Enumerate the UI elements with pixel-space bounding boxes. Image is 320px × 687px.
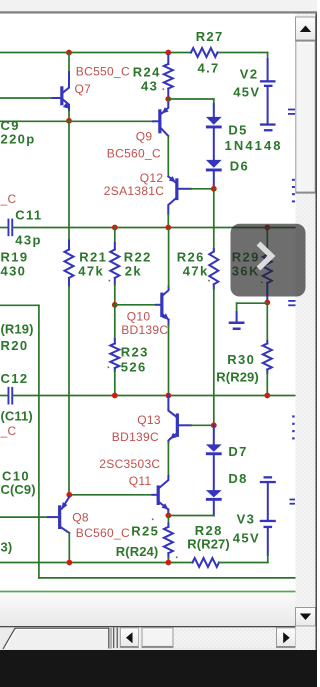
ground symbol — [236, 303, 238, 312]
transistor Q10 BD139C npn — [115, 304, 156, 306]
svg-text:D5: D5 — [228, 123, 247, 138]
clipped symbol mark = at y499 — [290, 499, 296, 501]
scrollbar corner checker — [296, 627, 316, 650]
svg-text:BC560_C: BC560_C — [107, 147, 161, 161]
wire y227.5 mid rail — [13, 227, 295, 229]
capacitor C11 43p — [8, 219, 10, 237]
svg-text:45V: 45V — [233, 531, 260, 546]
pin speck marks — [108, 88, 263, 558]
wire y395.5 mid-low rail — [13, 395, 295, 397]
svg-text:R23: R23 — [121, 345, 149, 360]
svg-text:430: 430 — [1, 264, 27, 279]
wire x69 column below R21 — [68, 286, 70, 495]
resistor R27 (4.7) horizontal at top — [191, 48, 218, 57]
toolbar strip top — [0, 0, 317, 12]
svg-text:V3: V3 — [237, 512, 256, 527]
svg-text:R(R27): R(R27) — [187, 537, 230, 552]
clipped symbol mark = at y109 — [288, 109, 295, 111]
wire x213.8 column below R26 to Q13 base node — [213, 289, 215, 426]
svg-text:R30: R30 — [227, 352, 255, 367]
svg-text:_C: _C — [0, 424, 16, 438]
node junction dot Q11 base node — [66, 492, 72, 498]
diode D6 — [206, 160, 222, 168]
wire V2 top lead corner — [267, 53, 269, 60]
node junction dot R25 bottom — [166, 560, 172, 566]
svg-text:R21: R21 — [79, 250, 107, 265]
svg-text:C11: C11 — [15, 208, 42, 223]
node junction dot top rail / Q7 collector — [66, 50, 72, 56]
vertical scrollbar thumb — [296, 41, 315, 193]
node junction dot R22 bottom / Q10 base — [112, 302, 118, 308]
svg-text:47k: 47k — [78, 264, 104, 279]
vertical scrollbar track — [296, 14, 316, 627]
svg-text:(R19): (R19) — [1, 322, 34, 337]
svg-text:R25: R25 — [131, 524, 159, 539]
svg-text:D7: D7 — [228, 444, 247, 459]
node junction dot Q11 emitter / R25 top — [166, 513, 172, 519]
black footer — [0, 650, 317, 687]
svg-text:BD139C: BD139C — [112, 430, 159, 444]
off-page area below schematic page — [0, 593, 296, 627]
node junction dot top rail / R24 top — [165, 50, 171, 56]
svg-text:C(C9): C(C9) — [1, 482, 36, 497]
svg-text:526: 526 — [121, 360, 147, 375]
svg-text:Q7: Q7 — [75, 82, 92, 96]
battery V2 45V upper cell — [267, 59, 269, 80]
svg-text:Q11: Q11 — [129, 474, 152, 488]
vertical scrollbar down button — [296, 608, 316, 627]
svg-text:2k: 2k — [125, 264, 142, 279]
svg-text:R19: R19 — [1, 250, 29, 265]
resistor R21 (47k) vertical — [68, 241, 70, 250]
vertical scrollbar up button — [296, 17, 316, 41]
svg-text:BC550_C: BC550_C — [76, 65, 130, 79]
svg-text:47k: 47k — [183, 264, 209, 279]
transistor Q9 BC560_C pnp — [167, 99, 169, 103]
horizontal scrollbar thumb — [142, 628, 173, 648]
clipped symbol dashes x293 y179-203 — [292, 179, 295, 181]
node junction dot R24 bottom — [165, 96, 171, 102]
transistor Q12 2SA1381C pnp — [168, 176, 175, 182]
transistor Q13 BD139C npn — [167, 396, 169, 410]
svg-text:(C11): (C11) — [1, 409, 33, 424]
svg-text:Q9: Q9 — [136, 130, 153, 144]
horizontal scrollbar track — [139, 628, 277, 648]
svg-text:2SA1381C: 2SA1381C — [104, 184, 164, 198]
node junction dot R29 bottom / ground branch — [264, 300, 270, 306]
resistor R24 (43) vertical — [167, 55, 169, 64]
wire y121 Q7 emitter to Q9 base — [0, 120, 153, 122]
resistor R28 horizontal — [193, 558, 220, 567]
wire x69 column Q7 emitter down to Q11 base node — [68, 121, 70, 241]
svg-text:R(R24): R(R24) — [116, 544, 159, 559]
node junction dot W5/Q12 collector — [165, 225, 171, 231]
wire y515.5 D8 anode to Q11 emitter node — [168, 515, 213, 517]
node junction dot R23 bottom — [112, 393, 118, 399]
svg-text:Q10: Q10 — [127, 310, 151, 324]
node junction dot Q13 base / D7 anode — [211, 422, 217, 428]
sheet tab bottom-left — [3, 628, 109, 649]
svg-text:3): 3) — [1, 540, 13, 555]
clipped symbol mark = at y300 — [288, 300, 296, 302]
transistor Q11 2SC3503C npn — [69, 494, 152, 496]
svg-text:43p: 43p — [15, 233, 41, 248]
horizontal scrollbar left button — [120, 628, 138, 648]
resistor R25 vertical — [167, 516, 169, 524]
diode D5 1N4148 — [213, 104, 215, 118]
node junction dot R30 bottom — [264, 393, 270, 399]
svg-text:4.7: 4.7 — [198, 61, 220, 76]
node junction dot W5/R29 top — [264, 225, 270, 231]
wire y591.5 page border line — [0, 591, 296, 593]
resistor R26 (47k) vertical — [213, 189, 215, 249]
svg-text:43: 43 — [141, 79, 158, 94]
svg-text:R24: R24 — [133, 65, 161, 80]
node junction dot Q8 collector — [67, 560, 73, 566]
svg-text:220p: 220p — [1, 132, 36, 147]
transistor Q8 BC560_C pnp — [62, 497, 70, 509]
resistor R29 (36K) vertical — [266, 228, 268, 251]
svg-text:R22: R22 — [124, 250, 152, 265]
capacitor C12 — [8, 387, 10, 405]
resistor R30 vertical — [266, 303, 268, 342]
resistor R22 (2k) vertical — [114, 228, 116, 244]
wire top +rail y52.5 left segment — [0, 52, 191, 54]
svg-text:R27: R27 — [196, 29, 224, 44]
svg-text:R(R29): R(R29) — [216, 370, 258, 385]
svg-text:C12: C12 — [1, 371, 29, 386]
transistor Q7 BC550_C npn — [68, 53, 70, 73]
right window edge — [316, 14, 318, 651]
clipped symbol dots x293 y415-440 — [292, 415, 294, 417]
svg-text:Q8: Q8 — [72, 511, 89, 525]
resistor R23 (526) vertical — [114, 305, 116, 339]
wire y305 left stub — [0, 304, 39, 306]
wire x38.9 vertical feedback — [38, 305, 40, 578]
wire y562.5 R28 to V3 — [219, 562, 268, 564]
wire y562.5 bottom -rail — [0, 562, 193, 564]
svg-text:V2: V2 — [240, 67, 259, 82]
svg-text:BD139C: BD139C — [121, 323, 168, 337]
svg-text:BC560_C: BC560_C — [76, 526, 130, 540]
node junction dot W5/R22 top — [112, 225, 118, 231]
wire y577.9 bottom feedback rail — [39, 577, 296, 579]
wire y303 to ground — [237, 302, 268, 304]
svg-text:45V: 45V — [233, 85, 260, 100]
svg-text:Q12: Q12 — [140, 171, 164, 185]
diode D8 — [206, 490, 222, 497]
overlay chevron panel button — [231, 224, 306, 297]
wire blue Q9 base lead — [153, 120, 159, 122]
wire top +rail y52.5 right segment — [218, 52, 268, 54]
horizontal scrollbar row background — [0, 626, 296, 650]
battery V3 45V — [264, 476, 273, 478]
svg-text:D8: D8 — [228, 471, 247, 486]
svg-text:R26: R26 — [177, 250, 205, 265]
svg-text:Q13: Q13 — [137, 413, 161, 427]
node junction dot Q10 emitter / Q13 collector — [166, 393, 172, 399]
svg-text:R20: R20 — [1, 338, 29, 353]
svg-text:1N4148: 1N4148 — [225, 138, 283, 153]
horizontal scrollbar right button — [277, 628, 296, 648]
diode D7 — [213, 425, 215, 445]
svg-text:_C: _C — [0, 192, 16, 206]
svg-text:2SC3503C: 2SC3503C — [99, 457, 160, 471]
tab separator bars — [113, 628, 114, 649]
wire y99 R24 bottom to D5 top — [168, 98, 214, 100]
node junction dot D6 anode / Q12 base — [211, 186, 217, 192]
svg-text:D6: D6 — [230, 159, 249, 174]
node junction dot Q7 emitter — [66, 118, 72, 124]
